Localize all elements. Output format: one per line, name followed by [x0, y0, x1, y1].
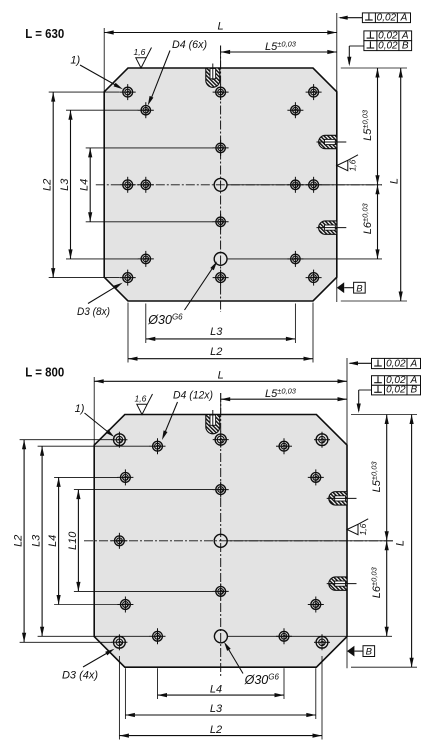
D3 hole bottom-center	[213, 277, 229, 279]
D4 hole center col upper	[213, 147, 229, 149]
extension line top edge right plate2	[351, 414, 417, 416]
dimension L5 ±0,03 (right)	[377, 68, 379, 185]
svg-text:L3: L3	[59, 178, 71, 191]
hole top-center plate2	[213, 439, 229, 441]
svg-text:L: L	[395, 540, 407, 546]
extension line row y439.7 left (L2) plate2	[20, 439, 112, 441]
surface finish symbol 1,6 (top) plate2	[137, 394, 153, 415]
feature control frame stack plate2	[372, 376, 421, 386]
svg-text:L: L	[389, 178, 401, 184]
extension line col x125.4 down (L3 bottom) plate2	[124, 668, 126, 719]
extension line col x119.4 down (L2 bottom) plate2	[118, 656, 120, 740]
dimension L4 (left) plate2	[58, 477, 60, 604]
extension line top edge right (L5/L right dims)	[341, 67, 407, 69]
datum feature symbol B (right edge) plate2	[347, 646, 354, 657]
extension line row y110.2 left (L3)	[66, 109, 138, 111]
datum feature symbol B (right edge)	[337, 282, 344, 293]
extension line right edge up (L dim / FCF leader)	[336, 13, 338, 92]
extension line col x145.8 down (L3 bottom)	[145, 304, 147, 344]
top clamping slot plate 2 (hatched)	[206, 415, 220, 434]
extension line col x128 down (L2 bottom)	[127, 303, 129, 363]
vertical centerline plate 2	[220, 393, 222, 678]
dimension L10 (left) plate2	[77, 490, 79, 592]
extension line row y591.4 left (L10) plate2	[74, 590, 213, 592]
extension line row y92.1 left (L2)	[49, 91, 120, 93]
dimension L2 (left)	[52, 92, 54, 278]
dimension L6 ±0,03 (right) plate2	[386, 541, 388, 637]
extension line center row right plate2	[227, 540, 393, 542]
surface finish symbol 1,6 (top)	[136, 48, 152, 69]
D4 hole row636 left plate2	[150, 635, 166, 637]
svg-text:1): 1)	[75, 403, 85, 415]
svg-text:L4: L4	[210, 683, 222, 695]
plate 1 outline (chamfered square)	[104, 68, 337, 301]
D4 hole row5 left	[138, 258, 154, 260]
svg-text:L = 630: L = 630	[25, 26, 64, 41]
dimension L5 ±0,03 (top) plate2	[221, 398, 347, 400]
extension line center row right (L5/L6 boundary)	[227, 184, 382, 186]
D4 hole row604 right plate2	[308, 604, 324, 606]
surface finish symbol 1,6 (right)	[337, 155, 358, 171]
dimension L5 ±0,03 (right) plate2	[386, 415, 388, 541]
svg-text:B: B	[402, 40, 409, 51]
extension line row y642.3 left (L2) plate2	[20, 641, 112, 643]
svg-text:L2: L2	[13, 535, 25, 547]
svg-text:L: L	[218, 21, 224, 33]
svg-text:0,02: 0,02	[386, 358, 406, 369]
dimension L3 (bottom) plate2	[125, 714, 315, 716]
extension line row y636.3 left (L3) plate2	[38, 635, 150, 637]
D3 hole top-center	[213, 91, 229, 93]
extension line left edge up (L dim)	[103, 28, 105, 92]
extension line right edge down plate2	[346, 637, 348, 669]
D4 hole row5 right	[287, 258, 303, 260]
svg-text:0,02: 0,02	[377, 12, 397, 23]
D4 hole mid-row left	[138, 184, 154, 186]
D3 hole top-right corner	[306, 91, 322, 93]
extension line col x295.4 down (L3 bottom)	[294, 304, 296, 344]
D4 hole row446 left plate2	[150, 445, 166, 447]
right clamping slot lower (hatched)	[319, 221, 337, 234]
extension line row y604.5 left (L4) plate2	[54, 604, 118, 606]
D4 hole center col upper plate2	[213, 489, 229, 491]
D3 hole top-left corner plate2	[111, 439, 127, 441]
svg-text:L: L	[218, 369, 224, 381]
extension line col x284 down (L4 bottom) plate2	[283, 668, 285, 699]
right clamping slot upper plate 2 (hatched)	[329, 492, 347, 505]
extension line row y258.9 left (L3)	[66, 258, 138, 260]
extension line bottom edge right	[341, 300, 407, 302]
right clamping slot upper (hatched)	[319, 135, 337, 148]
D4 hole row636 right plate2	[276, 635, 292, 637]
svg-text:L2: L2	[42, 179, 54, 191]
extension line center col up (L5 left end) plate2	[220, 393, 222, 415]
extension line row y489.6 left (L10) plate2	[74, 489, 213, 491]
svg-text:L3: L3	[31, 534, 43, 547]
center locating hole Ø30 G6 plate2	[214, 534, 227, 547]
dimension L2 (bottom) plate2	[119, 735, 322, 737]
lower locating hole Ø30 G6 plate2	[214, 630, 227, 643]
svg-text:A: A	[409, 358, 417, 369]
svg-text:D3 (8x): D3 (8x)	[77, 306, 110, 318]
svg-text:A: A	[400, 12, 408, 23]
extension line bottom edge right plate2	[351, 666, 417, 668]
D4 hole row477 left plate2	[117, 476, 133, 478]
dimension L (top)	[104, 32, 337, 34]
svg-text:L10: L10	[67, 531, 79, 550]
dimension L2 (bottom)	[128, 358, 313, 360]
D4 hole mid-row right	[287, 184, 303, 186]
extension line right edge up plate2	[346, 358, 348, 445]
dimension L (right) plate2	[411, 415, 413, 668]
dimension L2 (left) plate2	[23, 440, 25, 643]
svg-text:1,6: 1,6	[135, 394, 147, 404]
D4 hole row2 right	[287, 109, 303, 111]
svg-text:1,6: 1,6	[358, 523, 368, 535]
svg-text:L4: L4	[47, 535, 59, 547]
svg-text:L4: L4	[79, 179, 91, 191]
D3 hole mid-right	[306, 184, 322, 186]
D3 hole top-left corner	[120, 91, 136, 93]
dimension L6 ±0,03 (right)	[377, 185, 379, 259]
dimension L4 (left)	[89, 148, 91, 222]
svg-text:L3: L3	[210, 703, 223, 715]
D3 hole bottom-left corner	[120, 277, 136, 279]
D4 hole row2 left	[138, 109, 154, 111]
D4 hole row604 left plate2	[117, 604, 133, 606]
D4 hole center col lower plate2	[213, 590, 229, 592]
svg-text:D4 (12x): D4 (12x)	[173, 390, 213, 402]
lower locating hole Ø30 G6	[214, 253, 227, 266]
extension line right edge down (to datum B / bottom)	[336, 277, 338, 302]
extension line hole row y258.9 right (L6)	[227, 258, 382, 260]
extension line left edge up (L dim) plate2	[93, 377, 95, 445]
dimension L (top) plate2	[94, 380, 347, 382]
svg-text:D3 (4x): D3 (4x)	[62, 670, 98, 682]
top clamping slot (hatched)	[206, 68, 220, 87]
D4 hole center col lower	[213, 221, 229, 223]
feature control frame ⊥ 0,02 A (top right) plate2	[372, 358, 421, 368]
extension line col x322 down (L2 bottom) plate2	[321, 656, 323, 740]
extension line row y277.6 left (L2)	[49, 277, 120, 279]
extension line center col up (L5 left end)	[220, 46, 222, 69]
right clamping slot lower plate 2 (hatched)	[329, 577, 347, 590]
D4 hole mid-left plate2	[111, 540, 127, 542]
vertical centerline plate 1	[220, 46, 222, 313]
D3 hole top-right corner plate2	[314, 439, 330, 441]
svg-text:D4 (6x): D4 (6x)	[172, 39, 207, 51]
svg-text:B: B	[366, 647, 373, 658]
svg-text:B: B	[410, 385, 417, 396]
dimension L (right)	[400, 68, 402, 301]
svg-text:0,02: 0,02	[386, 385, 406, 396]
extension line Ø30 row right plate2	[227, 635, 392, 637]
svg-text:L3: L3	[210, 326, 223, 338]
dimension L3 (left)	[70, 110, 72, 259]
extension line row y477.4 left (L4) plate2	[54, 476, 118, 478]
extension line col x313 down (L2 bottom)	[312, 303, 314, 363]
D4 hole row477 right plate2	[308, 476, 324, 478]
extension line col x315.8 down (L3 bottom) plate2	[315, 668, 317, 719]
svg-text:0,02: 0,02	[378, 40, 398, 51]
D4 hole row446 right plate2	[276, 445, 292, 447]
dimension L5 ±0,03 (top)	[221, 51, 337, 53]
extension line row y446.2 left (L3) plate2	[38, 445, 150, 447]
dimension L3 (left) plate2	[41, 446, 43, 636]
center locating hole Ø30 G6	[214, 178, 227, 191]
extension line row y147.9 left (L4)	[86, 147, 213, 149]
svg-text:L2: L2	[210, 346, 222, 358]
feature control frame ⊥ 0,02 A (top right)	[362, 13, 410, 23]
D3 hole bottom-right corner	[306, 277, 322, 279]
plate 2 outline (chamfered square)	[94, 415, 347, 668]
D3 hole mid-left	[120, 184, 136, 186]
feature control frame stack ⊥ 0,02 A / ⊥ 0,02 B	[364, 31, 412, 41]
svg-text:B: B	[356, 283, 363, 294]
surface finish symbol 1,6 (right) plate2	[347, 519, 368, 535]
dimension L3 (bottom)	[146, 338, 296, 340]
svg-text:L2: L2	[210, 724, 222, 736]
svg-text:1,6: 1,6	[348, 159, 358, 171]
extension line row y221.8 left (L4)	[86, 221, 213, 223]
horizontal centerline plate 1	[96, 184, 382, 186]
D3 hole bottom-right corner plate2	[314, 641, 330, 643]
svg-text:1,6: 1,6	[134, 47, 146, 57]
extension line col x157.5 down (L4 bottom) plate2	[157, 668, 159, 699]
dimension L4 (bottom) plate2	[158, 694, 285, 696]
horizontal centerline plate 2	[84, 540, 393, 542]
svg-text:L = 800: L = 800	[25, 364, 64, 379]
D3 hole bottom-left corner plate2	[111, 641, 127, 643]
svg-text:1): 1)	[70, 55, 80, 67]
